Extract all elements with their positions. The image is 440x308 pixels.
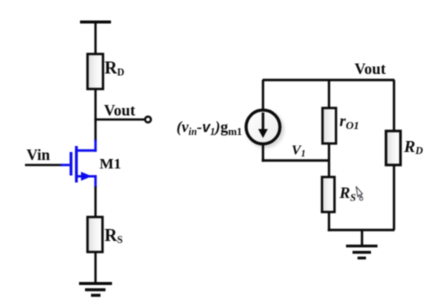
wire: rail to rO1 <box>328 80 330 110</box>
resistor RD right <box>386 131 401 165</box>
ground right <box>346 246 378 258</box>
wire: rail to RD right <box>393 80 395 133</box>
wire: ground stem right <box>361 230 363 246</box>
mouse cursor <box>356 187 363 201</box>
label V1 <box>292 144 306 160</box>
label Vout <box>104 103 136 120</box>
wire: Vin lead <box>25 164 62 166</box>
svg-text:RS: RS <box>339 185 357 204</box>
label M1 <box>100 157 122 173</box>
resistor RS right <box>322 177 335 212</box>
svg-text:V1: V1 <box>292 144 306 160</box>
label (vin-v1)gm1 <box>177 119 243 138</box>
label RD right <box>403 137 423 157</box>
label RS right <box>339 185 357 204</box>
wire: top rail right <box>263 79 395 81</box>
wire: bottom rail <box>328 229 395 231</box>
wire: Vout node horizontal <box>94 118 145 120</box>
svg-text:RD: RD <box>403 137 423 157</box>
wire: RD to drain <box>94 89 96 141</box>
svg-text:RD: RD <box>105 58 125 79</box>
label RD <box>105 58 125 79</box>
wire: RS right to bottom rail <box>328 212 330 231</box>
label rO1 <box>340 113 360 132</box>
terminal Vout open circle <box>145 117 151 123</box>
svg-text:(vin-v1)gm1: (vin-v1)gm1 <box>177 119 243 138</box>
wire: source to RS <box>94 187 96 220</box>
wire: RD right to bottom rail <box>393 165 395 230</box>
svg-text:Vout: Vout <box>355 61 387 78</box>
resistor rO1 <box>323 108 337 144</box>
wire: rail to RD <box>94 22 96 56</box>
svg-text:RS: RS <box>105 225 124 246</box>
wire: current source to node V1 <box>262 144 330 162</box>
transistor M1 <box>61 140 97 188</box>
svg-text:Vout: Vout <box>104 103 136 120</box>
current source G1 <box>246 110 282 146</box>
wire: RS to ground <box>94 252 96 284</box>
wire: rO1 to RS right <box>328 144 330 180</box>
resistor RD <box>88 54 104 89</box>
label Vout right <box>355 61 387 78</box>
label Vin <box>27 147 51 164</box>
resistor RS <box>88 217 103 252</box>
power rail VDD bar <box>80 21 111 24</box>
label RS <box>105 225 124 246</box>
wire: rail to current source <box>262 80 264 111</box>
svg-text:Vin: Vin <box>27 147 51 164</box>
ground left <box>79 284 112 296</box>
svg-text:M1: M1 <box>100 157 122 173</box>
svg-text:rO1: rO1 <box>340 113 360 132</box>
